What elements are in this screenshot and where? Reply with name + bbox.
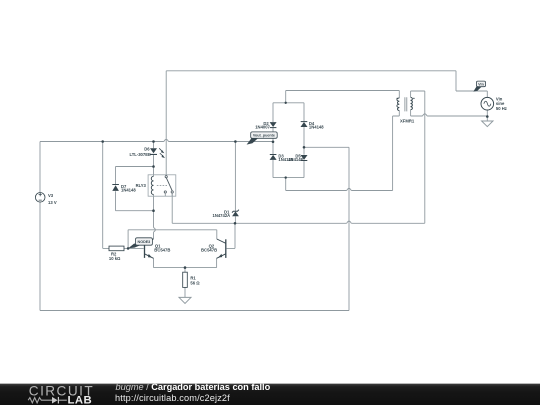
- svg-text:13 V: 13 V: [48, 200, 57, 205]
- svg-text:1N4007: 1N4007: [255, 125, 270, 130]
- svg-text:LTL-307EE: LTL-307EE: [129, 152, 151, 157]
- svg-text:1N4148: 1N4148: [288, 157, 303, 162]
- svg-text:1N4742A: 1N4742A: [212, 213, 230, 218]
- svg-text:RLY3: RLY3: [136, 183, 147, 188]
- svg-text:10 kΩ: 10 kΩ: [109, 256, 121, 261]
- svg-text:BC547B: BC547B: [201, 248, 217, 253]
- svg-text:1N4148: 1N4148: [121, 188, 136, 193]
- svg-text:BC547B: BC547B: [154, 248, 170, 253]
- svg-text:V3: V3: [48, 193, 54, 198]
- svg-text:LAB: LAB: [68, 395, 93, 406]
- svg-text:50 Hz: 50 Hz: [496, 106, 507, 111]
- svg-text:Vout_puente: Vout_puente: [253, 134, 275, 138]
- svg-text:XFMR1: XFMR1: [400, 119, 415, 124]
- svg-text:Vin: Vin: [478, 82, 484, 86]
- svg-text:D6: D6: [144, 146, 150, 151]
- svg-text:56 Ω: 56 Ω: [190, 280, 200, 285]
- svg-text:1N4148: 1N4148: [309, 125, 324, 130]
- svg-text:NODE3: NODE3: [138, 240, 151, 244]
